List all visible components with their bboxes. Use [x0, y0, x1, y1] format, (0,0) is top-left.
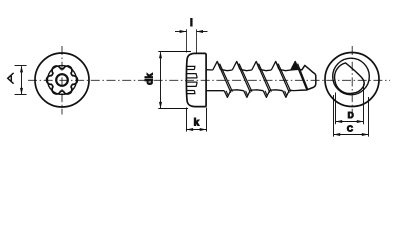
svg-text:C: C [347, 124, 353, 134]
svg-text:k: k [194, 117, 200, 128]
svg-text:D: D [348, 110, 354, 120]
svg-text:dk: dk [145, 73, 156, 85]
svg-text:l: l [190, 18, 193, 29]
